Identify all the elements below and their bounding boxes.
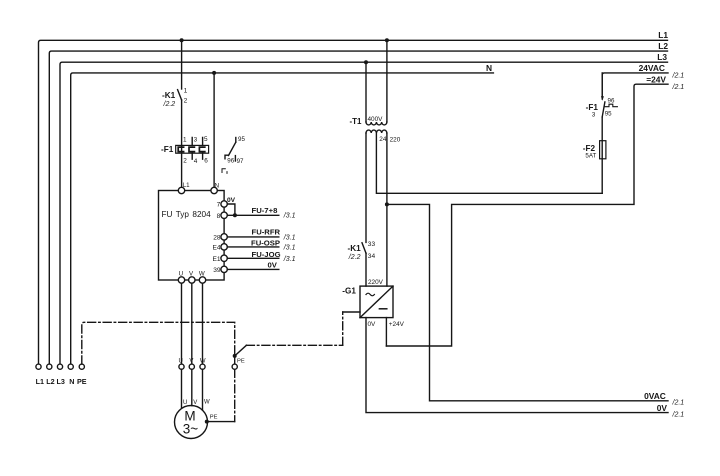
FU terminal E1 <box>213 255 228 263</box>
fuse/motor-breaker F1 body <box>176 145 209 153</box>
svg-text:N: N <box>69 377 74 386</box>
svg-text:PE: PE <box>77 377 87 386</box>
wire K1 aux to G1 input <box>365 253 367 286</box>
node V label near motor <box>193 400 197 406</box>
FU label <box>162 210 212 219</box>
svg-text:FU-JOG: FU-JOG <box>252 250 281 259</box>
wire rail L3 <box>60 62 668 364</box>
node L1 top-right label <box>658 30 668 40</box>
wire F1 to F2 <box>601 117 603 141</box>
F1 pole 2 stubs <box>191 138 193 160</box>
FU terminal W <box>199 271 206 284</box>
transformer T1 primary feed from L1 <box>386 40 388 122</box>
svg-text:U: U <box>179 358 183 364</box>
svg-text:97: 97 <box>237 158 244 165</box>
svg-text:6: 6 <box>204 158 208 165</box>
frequency inverter FU box <box>159 191 225 281</box>
power supply G1 box <box>360 286 393 318</box>
wire rail L2 <box>49 51 667 364</box>
FU terminal U <box>178 271 184 284</box>
svg-text:/2.2: /2.2 <box>348 254 361 261</box>
svg-text:L1: L1 <box>183 182 190 189</box>
node L3 label <box>657 52 667 62</box>
svg-text:E4: E4 <box>213 244 221 251</box>
node U label near motor <box>183 400 187 406</box>
svg-text:U: U <box>183 400 187 406</box>
T1 labels <box>350 116 401 143</box>
svg-text:V: V <box>189 358 193 364</box>
svg-text:FU-7+8: FU-7+8 <box>252 206 279 215</box>
contactor K1 main contact blade <box>178 90 182 100</box>
svg-text:W: W <box>199 271 205 278</box>
svg-text:95: 95 <box>605 110 612 117</box>
terminal circle PE mid <box>232 359 245 370</box>
FU terminal V <box>189 271 195 284</box>
reference /3.1 <box>283 256 296 263</box>
svg-text:3~: 3~ <box>183 422 199 437</box>
node reference /2.1 for 24VAC <box>672 73 685 80</box>
node 0V label pin7 <box>227 197 236 204</box>
wire 0V jumper 7 to 8 <box>227 204 235 215</box>
svg-text:/2.1: /2.1 <box>672 73 685 80</box>
svg-text:L3: L3 <box>657 52 667 62</box>
fuse F2 <box>600 141 606 159</box>
svg-text:/3.1: /3.1 <box>283 212 296 219</box>
reference /3.1 <box>283 234 296 241</box>
wire F2 down to 24V winding feed <box>601 159 603 194</box>
node junction L1/T1 <box>385 38 389 42</box>
wire U to motor <box>181 369 183 408</box>
wire W phase <box>202 283 204 364</box>
reference mark below aux contact <box>222 169 227 174</box>
node reference /2.1 for 0V <box>672 411 685 418</box>
svg-text:PE: PE <box>210 415 218 421</box>
svg-text:96: 96 <box>608 97 615 104</box>
svg-text:L1: L1 <box>658 30 668 40</box>
node reference /2.1 for 0VAC <box>672 400 685 407</box>
wire V phase <box>191 283 193 364</box>
wire PE branch to G1 chassis <box>235 312 360 356</box>
net label FU-7+8 <box>252 206 279 215</box>
svg-text:220: 220 <box>390 136 401 143</box>
wire N rail to FU N terminal <box>213 73 215 187</box>
svg-text:/2.1: /2.1 <box>672 411 685 418</box>
svg-text:0V: 0V <box>227 197 236 204</box>
node junction 7/8 <box>233 213 237 217</box>
wire rail N <box>71 73 494 364</box>
wire G1 +24V output <box>385 318 387 346</box>
terminal row L1 L2 L3 N PE circles <box>36 364 85 369</box>
svg-text:/3.1: /3.1 <box>283 244 296 251</box>
svg-text:-G1: -G1 <box>342 287 356 296</box>
G1 labels <box>342 279 404 328</box>
svg-text:95: 95 <box>238 136 245 143</box>
node junction N rail <box>212 71 216 75</box>
net label FU-OSP <box>251 239 280 248</box>
svg-text:-K1: -K1 <box>162 91 176 100</box>
svg-text:L2: L2 <box>46 377 54 386</box>
G1 DC symbol <box>379 308 386 310</box>
wire motor PE to PE terminal <box>208 421 235 423</box>
svg-text:24VAC: 24VAC <box>639 63 665 73</box>
wire K1 to F1 pole1 to FU L1 terminal <box>181 100 183 187</box>
node W label near motor <box>204 399 210 405</box>
svg-text:0V: 0V <box>657 403 668 413</box>
FU terminal L1 <box>178 182 190 194</box>
motor M1 circle <box>175 406 208 439</box>
wire FU-OSP <box>227 246 278 248</box>
svg-text:-K1: -K1 <box>348 244 362 253</box>
overload contact F1 95/96 top right <box>601 73 618 117</box>
svg-text:-T1: -T1 <box>350 117 363 126</box>
reference /3.1 <box>283 212 296 219</box>
node junction 220 tap <box>385 202 389 206</box>
F1 aux contact 95/96/97 <box>225 138 236 162</box>
wire W to motor <box>202 369 204 410</box>
svg-text:+24V: +24V <box>389 321 405 328</box>
svg-text:34: 34 <box>368 253 376 260</box>
svg-text:33: 33 <box>368 241 376 248</box>
wire V to motor <box>191 369 193 405</box>
svg-text:24: 24 <box>379 136 387 143</box>
svg-text:2: 2 <box>184 98 188 105</box>
svg-text:E1: E1 <box>213 256 221 263</box>
svg-text:/2.1: /2.1 <box>672 84 685 91</box>
svg-text:3: 3 <box>194 136 198 143</box>
svg-text:=24V: =24V <box>646 74 666 84</box>
net label FU-RFR <box>252 227 281 236</box>
node N label <box>486 63 492 73</box>
wire PE dash-dot run <box>82 322 235 421</box>
svg-text:FU-RFR: FU-RFR <box>252 227 281 236</box>
svg-text:/3.1: /3.1 <box>283 234 296 241</box>
terminal row labels <box>36 377 87 386</box>
svg-text:W: W <box>200 358 206 364</box>
wire 0VAC feed <box>387 204 668 400</box>
contactor K1 main contact wire from L1 <box>181 40 183 89</box>
transformer T1 primary coil 400V <box>366 122 387 125</box>
net label 0V <box>268 261 278 270</box>
svg-text:-F1: -F1 <box>161 145 174 154</box>
svg-text:4: 4 <box>194 158 198 165</box>
F2 labels <box>583 144 597 159</box>
FU terminal 39 <box>213 266 227 274</box>
svg-text:0V: 0V <box>268 261 278 270</box>
wire rail L1 <box>39 40 668 364</box>
svg-text:L3: L3 <box>57 377 65 386</box>
motor PE node <box>205 415 218 424</box>
svg-text:28: 28 <box>213 234 221 241</box>
svg-text:1: 1 <box>183 137 187 144</box>
svg-text:PE: PE <box>237 359 245 365</box>
contactor K1 labels <box>162 87 188 108</box>
F1 labels <box>161 136 208 165</box>
FU terminal N <box>211 182 219 193</box>
svg-text:W: W <box>204 399 210 405</box>
svg-text:FU Typ 8204: FU Typ 8204 <box>162 210 212 219</box>
FU terminal 8 <box>217 212 228 220</box>
svg-text:1: 1 <box>184 87 188 94</box>
svg-text:/2.2: /2.2 <box>163 101 176 108</box>
wire =24V rail <box>386 84 668 346</box>
svg-text:/3.1: /3.1 <box>283 256 296 263</box>
wire T1 220 end down to G1 <box>386 133 388 286</box>
F1 pole 2 contact <box>189 147 194 152</box>
svg-text:5: 5 <box>204 136 208 143</box>
terminal circle W <box>200 358 206 369</box>
node junction L1/K1 <box>180 38 184 42</box>
svg-text:L2: L2 <box>658 41 668 51</box>
svg-text:39: 39 <box>213 267 221 274</box>
F1 overload labels <box>586 97 615 118</box>
G1 AC symbol <box>366 293 374 296</box>
wire U phase FU to motor terminal <box>181 283 183 364</box>
node 24VAC label <box>639 63 665 73</box>
svg-text:2: 2 <box>183 158 187 165</box>
wire FU-7+8 <box>227 214 278 216</box>
FU terminal 28 <box>213 234 227 242</box>
svg-text:N: N <box>486 63 492 73</box>
F1 aux contact labels <box>227 136 245 165</box>
node 0VAC label <box>644 391 666 401</box>
FU terminal E4 <box>213 244 228 252</box>
svg-text:/2.1: /2.1 <box>672 400 685 407</box>
wire FU-RFR <box>227 236 278 238</box>
node 0V label <box>657 403 668 413</box>
node L2 label <box>658 41 668 51</box>
wire G1 0V output to 0V rail <box>366 318 668 413</box>
wire T1 24 tap to 24VAC feed <box>376 133 602 193</box>
svg-text:0VAC: 0VAC <box>644 391 666 401</box>
F1 pole 1 contact <box>178 147 183 152</box>
wire FU-JOG <box>227 257 278 259</box>
wire 0V from 39 <box>227 268 278 270</box>
svg-text:L1: L1 <box>36 377 44 386</box>
net label FU-JOG <box>252 250 281 259</box>
svg-text:U: U <box>179 271 183 278</box>
F1 pole 3 contact <box>199 147 204 152</box>
svg-text:96: 96 <box>227 158 234 165</box>
transformer T1 secondary coil <box>366 130 387 133</box>
FU terminal 7 <box>217 201 228 209</box>
reference /3.1 <box>283 244 296 251</box>
svg-text:FU-OSP: FU-OSP <box>251 239 280 248</box>
wire 24VAC rail <box>602 73 668 97</box>
motor label M 3~ <box>183 408 199 436</box>
F1 pole 3 stubs <box>202 138 204 160</box>
svg-text:400V: 400V <box>368 116 384 123</box>
svg-text:8: 8 <box>217 213 221 220</box>
node PE junction dot <box>233 354 237 358</box>
terminal circle V <box>189 358 194 369</box>
svg-text:7: 7 <box>217 202 221 209</box>
terminal circle U <box>179 358 185 369</box>
svg-text:3: 3 <box>592 111 596 118</box>
node reference /2.1 for =24V <box>672 84 685 91</box>
node junction L3/T1 <box>364 60 368 64</box>
G1 diagonal <box>360 286 393 318</box>
contactor K1 aux contact 33/34 blade <box>362 243 366 253</box>
svg-text:5AT: 5AT <box>585 153 596 160</box>
transformer T1 primary feed from L3 <box>365 62 367 122</box>
svg-text:N: N <box>215 182 219 189</box>
node =24V label <box>646 74 666 84</box>
svg-text:220V: 220V <box>368 279 384 286</box>
svg-text:0V: 0V <box>368 321 377 328</box>
wire T1 secondary left end to K1 aux <box>365 133 367 242</box>
K1 aux labels <box>348 241 376 261</box>
